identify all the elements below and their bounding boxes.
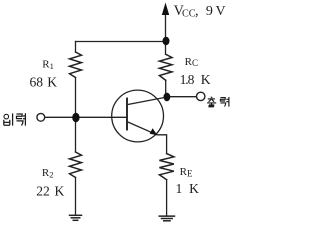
svg-text:1.8: 1.8 — [180, 72, 195, 87]
svg-text:V: V — [216, 4, 226, 19]
svg-text:RC: RC — [185, 56, 198, 68]
svg-text:R2: R2 — [42, 167, 54, 179]
svg-text:9: 9 — [206, 4, 213, 19]
svg-text:RE: RE — [180, 166, 193, 178]
svg-text:22: 22 — [36, 184, 50, 199]
svg-text:1: 1 — [176, 181, 183, 196]
svg-text:K: K — [189, 181, 199, 196]
svg-text:K: K — [201, 72, 211, 87]
svg-text:68: 68 — [30, 75, 44, 90]
svg-text:R1: R1 — [42, 59, 54, 71]
svg-text:K: K — [47, 75, 57, 90]
svg-text:K: K — [55, 184, 65, 199]
